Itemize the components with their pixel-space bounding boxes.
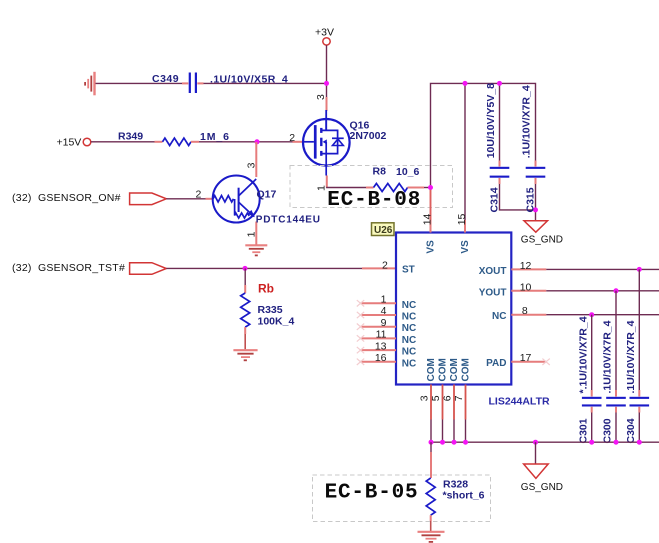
svg-text:R8: R8 <box>373 166 387 178</box>
svg-text:12: 12 <box>520 260 532 272</box>
svg-text:15: 15 <box>456 213 468 225</box>
svg-text:2: 2 <box>289 132 295 144</box>
svg-text:7: 7 <box>453 395 465 401</box>
svg-text:Rb: Rb <box>258 282 274 296</box>
svg-text:17: 17 <box>520 352 532 364</box>
svg-text:9: 9 <box>381 317 387 329</box>
svg-text:COM: COM <box>438 358 449 381</box>
svg-text:YOUT: YOUT <box>479 287 507 298</box>
svg-text:NC: NC <box>402 323 416 334</box>
svg-text:R349: R349 <box>118 131 143 143</box>
svg-text:(32) GSENSOR_TST#: (32) GSENSOR_TST# <box>12 262 125 274</box>
svg-text:GS_GND: GS_GND <box>521 235 563 246</box>
svg-text:COM: COM <box>426 358 437 381</box>
svg-text:C349: C349 <box>152 73 179 85</box>
svg-text:PDTC144EU: PDTC144EU <box>256 215 321 226</box>
svg-text:EC-B-08: EC-B-08 <box>327 189 421 212</box>
svg-text:EC-B-05: EC-B-05 <box>325 481 419 504</box>
svg-text:.1U/10V/X7R_4: .1U/10V/X7R_4 <box>625 320 637 393</box>
svg-text:Q17: Q17 <box>257 189 277 201</box>
svg-text:11: 11 <box>376 329 387 341</box>
svg-text:+15V: +15V <box>57 136 82 148</box>
svg-text:C301: C301 <box>577 418 589 443</box>
svg-text:GS_GND: GS_GND <box>521 482 563 493</box>
svg-text:R335: R335 <box>258 304 283 316</box>
svg-text:NC: NC <box>402 335 416 346</box>
svg-text:(32) GSENSOR_ON#: (32) GSENSOR_ON# <box>12 192 121 204</box>
svg-text:1: 1 <box>381 294 387 306</box>
svg-text:100K_4: 100K_4 <box>258 316 295 328</box>
svg-text:*.1U/10V/X7R_4: *.1U/10V/X7R_4 <box>577 316 589 393</box>
svg-text:COM: COM <box>449 358 460 381</box>
svg-text:8: 8 <box>522 305 528 317</box>
svg-text:PAD: PAD <box>486 358 506 369</box>
svg-text:VS: VS <box>460 240 471 254</box>
svg-text:14: 14 <box>421 213 433 225</box>
svg-text:13: 13 <box>375 340 387 352</box>
svg-text:10_6: 10_6 <box>396 166 420 178</box>
svg-text:2N7002: 2N7002 <box>350 130 387 142</box>
svg-text:6: 6 <box>441 395 453 401</box>
svg-text:1M_6: 1M_6 <box>200 131 230 143</box>
svg-text:.1U/10V/X7R_4: .1U/10V/X7R_4 <box>521 85 533 158</box>
svg-text:NC: NC <box>492 311 506 322</box>
svg-text:XOUT: XOUT <box>479 266 507 277</box>
svg-text:1: 1 <box>246 231 258 237</box>
svg-text:3: 3 <box>315 94 327 100</box>
svg-text:.1U/10V/X7R_4: .1U/10V/X7R_4 <box>602 320 614 393</box>
svg-text:NC: NC <box>402 358 416 369</box>
svg-text:2: 2 <box>382 259 388 271</box>
svg-text:3: 3 <box>246 162 258 168</box>
svg-text:10U/10V/Y5V_8: 10U/10V/Y5V_8 <box>485 83 497 158</box>
svg-text:ST: ST <box>402 265 415 276</box>
svg-text:C300: C300 <box>602 418 614 443</box>
svg-text:*short_6: *short_6 <box>443 490 485 502</box>
svg-text:5: 5 <box>430 395 442 401</box>
svg-text:1: 1 <box>315 185 327 191</box>
svg-text:LIS244ALTR: LIS244ALTR <box>489 396 550 408</box>
svg-text:VS: VS <box>426 240 437 254</box>
svg-text:NC: NC <box>402 300 416 311</box>
svg-text:10: 10 <box>520 281 532 293</box>
svg-text:NC: NC <box>402 347 416 358</box>
svg-text:16: 16 <box>375 352 387 364</box>
svg-text:NC: NC <box>402 312 416 323</box>
svg-text:C314: C314 <box>488 187 500 212</box>
svg-text:.1U/10V/X5R_4: .1U/10V/X5R_4 <box>210 74 288 86</box>
svg-text:COM: COM <box>461 358 472 381</box>
svg-text:U26: U26 <box>374 225 393 236</box>
svg-text:2: 2 <box>196 189 202 201</box>
svg-text:4: 4 <box>381 305 387 317</box>
svg-text:+3V: +3V <box>315 27 334 39</box>
svg-text:C304: C304 <box>625 418 637 443</box>
svg-text:3: 3 <box>418 395 430 401</box>
svg-text:C315: C315 <box>524 187 536 212</box>
